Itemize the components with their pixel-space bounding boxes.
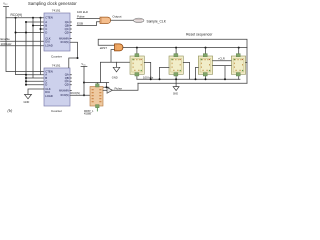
one-shot X4 xyxy=(231,54,245,76)
wire VCC rail down to U2 CTEN xyxy=(6,18,44,72)
wire net RCO(H) to U1 CTEN xyxy=(6,17,44,19)
node junction x84 y95.2 xyxy=(83,94,85,96)
label aRST xyxy=(100,46,107,50)
label Reset sequencer xyxy=(186,33,213,37)
label net RCO(H) xyxy=(11,13,23,17)
wire Pulse input to U3 xyxy=(77,18,100,20)
wire Pulse output xyxy=(113,83,139,90)
svg-text:D/U: D/U xyxy=(45,39,50,43)
svg-text:74191: 74191 xyxy=(52,63,61,67)
wire X2 bottom drop xyxy=(175,77,177,84)
node junction bus X4 xyxy=(238,47,240,49)
node junction RCO wire x15.5 xyxy=(15,17,17,19)
label Enable xyxy=(1,37,11,41)
node junction D-row x26 xyxy=(25,32,27,34)
wire drop to X2 top xyxy=(175,48,177,54)
one-shot U5 MRST xyxy=(84,84,103,116)
svg-text:D: D xyxy=(45,31,47,35)
svg-text:RCO(N): RCO(N) xyxy=(71,91,81,95)
wire ground bus A xyxy=(137,78,240,80)
svg-text:Reset sequencer: Reset sequencer xyxy=(186,33,213,37)
wire drop to X4 top xyxy=(238,48,240,54)
label 100 kHz (sequencer) xyxy=(143,75,154,79)
label +CLR xyxy=(218,56,225,60)
node junction bottom C-row xyxy=(25,80,27,82)
node junction RCO wire x33 xyxy=(32,17,34,19)
power VCC2 xyxy=(81,62,87,95)
node junction A-row xyxy=(25,21,27,23)
svg-text:GND: GND xyxy=(173,93,178,95)
node junction busA x176 xyxy=(175,78,177,80)
label Sample CLK xyxy=(147,19,167,23)
wire U1 pin D xyxy=(16,32,45,34)
node junction D-row x15.5 xyxy=(15,32,17,34)
node junction x90.5 y58 xyxy=(77,57,79,59)
svg-text:GND: GND xyxy=(112,75,118,79)
node junction x106.5 y87.2 xyxy=(106,86,108,88)
svg-text:Counter: Counter xyxy=(51,54,62,58)
label Output xyxy=(112,14,121,18)
one-shot X3 xyxy=(198,54,212,76)
svg-text:aRST: aRST xyxy=(100,46,107,50)
label Pulse (gate1 input) xyxy=(77,15,85,19)
one-shot X2 xyxy=(169,54,183,76)
wire vertical bus v2 xyxy=(26,22,44,85)
svg-text:100 kHz: 100 kHz xyxy=(1,42,13,46)
node junction RCO wire x40.5 xyxy=(40,17,42,19)
wire U1 pin C xyxy=(41,28,45,30)
node junction busA x150.7 xyxy=(150,78,152,80)
wire U1 pin A xyxy=(26,21,44,23)
wire drop to X3 top xyxy=(205,48,207,54)
svg-text:4538B: 4538B xyxy=(84,113,91,116)
node junction bus X3 xyxy=(205,47,207,49)
wire 100 kHz clock to U1 xyxy=(1,45,45,47)
wire U1 RCO(N) down to U5 area xyxy=(70,42,78,58)
svg-text:LOAD: LOAD xyxy=(45,94,53,98)
counter U2 74191 xyxy=(44,63,71,112)
svg-text:Counter: Counter xyxy=(51,109,62,113)
node junction bottom D-row xyxy=(25,84,27,86)
buffer A1 xyxy=(103,87,113,93)
label RCO(N) net xyxy=(71,91,81,95)
svg-text:MAX/MIN: MAX/MIN xyxy=(59,90,69,93)
wire loop to U4 input1 xyxy=(98,39,247,83)
label 100 kHz (left) xyxy=(1,42,13,46)
wire vertical bus v3 xyxy=(26,18,44,78)
wire X3 left to bus A xyxy=(196,67,199,79)
node junction bottom A-row xyxy=(25,74,27,76)
svg-text:Output: Output xyxy=(112,14,121,18)
ground GND1 xyxy=(24,89,45,104)
wire U1 pin B xyxy=(33,25,44,27)
and-gate U3 xyxy=(100,17,111,23)
wire X3 bottom drop xyxy=(205,77,207,80)
probe Sample CLK xyxy=(134,18,144,22)
wire drop to X1 top xyxy=(136,48,138,54)
svg-text:GND: GND xyxy=(24,100,30,104)
wire U4 input2 from X1 xyxy=(100,50,130,83)
wire X4 right to loop xyxy=(246,61,247,63)
node junction bus X1 xyxy=(136,47,138,49)
label ESB (gate1 input) xyxy=(77,22,83,26)
one-shot X1 xyxy=(130,54,144,76)
wire loop to U2 xyxy=(69,58,78,68)
svg-text:100 kHz: 100 kHz xyxy=(77,10,89,14)
node junction bottom B-row xyxy=(25,77,27,79)
svg-text:+CLR: +CLR xyxy=(218,56,225,60)
svg-text:74191: 74191 xyxy=(52,8,61,12)
title: Sampling clock generator xyxy=(28,1,77,6)
node junction bus X2 xyxy=(175,47,177,49)
svg-text:LOAD: LOAD xyxy=(45,44,53,48)
label figure (b) xyxy=(8,108,13,113)
svg-text:QD: QD xyxy=(65,30,69,34)
svg-text:Pulse: Pulse xyxy=(77,15,85,19)
label Pulse net xyxy=(115,86,123,90)
wire pulse bus B xyxy=(138,82,247,84)
wire U3 output xyxy=(111,19,134,21)
wire X1 bottom drop xyxy=(136,77,138,80)
svg-text:Sampling clock generator: Sampling clock generator xyxy=(28,1,77,6)
wire U4 output bus xyxy=(123,47,247,49)
svg-text:Pulse: Pulse xyxy=(115,86,123,90)
node junction busA x205.5 xyxy=(205,78,207,80)
svg-text:100 kHz: 100 kHz xyxy=(143,75,154,79)
power VCC1 xyxy=(3,2,8,18)
label 100 kHz (gate1) xyxy=(77,10,89,14)
wire X3 to X4 xyxy=(213,61,232,80)
wire X2 right to bus A xyxy=(183,62,189,79)
wire power rail above U5 xyxy=(84,83,109,88)
wire Enable to U1 xyxy=(1,40,45,42)
node junction x84 y82.5 xyxy=(83,82,85,84)
svg-text:(b): (b) xyxy=(8,108,13,113)
counter U1 74191 xyxy=(44,8,71,58)
ground GND2 (X1 input) xyxy=(112,62,120,79)
node junction busA x195.5 xyxy=(195,78,197,80)
svg-text:QD: QD xyxy=(65,83,69,87)
svg-text:Enable: Enable xyxy=(1,37,11,41)
wire X2 left to bus A xyxy=(160,67,170,79)
wire X4 bottom drop xyxy=(238,77,240,80)
svg-text:RCO(N): RCO(N) xyxy=(61,95,69,97)
svg-text:Sample_CLK: Sample_CLK xyxy=(147,19,167,23)
wire vertical bus v4 xyxy=(26,18,44,75)
node junction B-row xyxy=(32,25,34,27)
wire ESB input to U3 xyxy=(77,22,100,26)
svg-text:RCO(N): RCO(N) xyxy=(61,42,69,44)
wire X1 right to bus A xyxy=(144,62,150,79)
wire U2 RCO(N) to U5 xyxy=(70,94,90,96)
ground GND3 xyxy=(173,83,179,95)
svg-text:MAX/MIN: MAX/MIN xyxy=(59,37,69,40)
node junction busA x159.5 xyxy=(159,78,161,80)
wire vertical bus v1 xyxy=(16,18,45,85)
and-gate U4 xyxy=(115,44,124,51)
svg-text:RCO(H): RCO(H) xyxy=(11,13,23,17)
node junction C-row xyxy=(40,28,42,30)
svg-text:ESB: ESB xyxy=(77,22,83,26)
node junction busA x225 xyxy=(224,78,226,80)
